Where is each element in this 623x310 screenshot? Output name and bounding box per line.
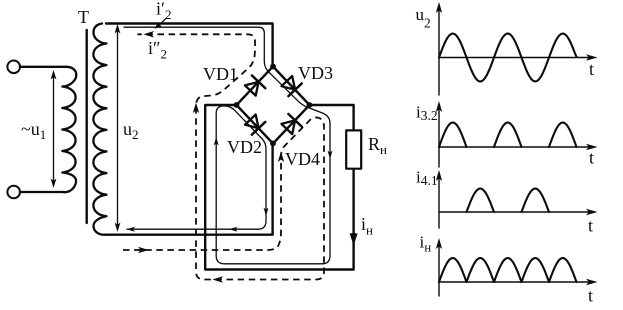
junction node: bridge left vertex [234,102,240,108]
svg-text:VD1: VD1 [203,64,238,84]
diode VD4 [280,114,302,135]
svg-text:VD3: VD3 [298,63,333,83]
wire bridge bottom vertex to secondary bottom [104,144,273,235]
sine curve u2 [439,34,577,82]
junction node: bridge top vertex [270,64,276,70]
diode VD3 [280,75,302,96]
arrow on i''2 up run near VD4 [278,152,284,163]
current path i'2 (thin solid loop through VD3, Rn, VD2) [124,27,330,264]
diode VD2 [244,113,266,134]
arrow on i'2 bottom run (left, to transformer) [127,227,136,232]
transformer core [85,30,87,223]
resistor Rn [346,130,361,168]
junction node: bridge right vertex [307,102,313,108]
arrow on i'2 down run near Rn [328,151,333,160]
arrow on i'2 bottom run (mid) [229,227,238,232]
svg-text:t: t [588,216,593,236]
wire secondary top to bridge top vertex [106,24,273,67]
wire top terminal to primary [20,66,66,68]
svg-text:VD2: VD2 [227,137,262,157]
arrow on i''2 top return run [144,31,155,38]
transformer primary winding L1 [62,67,76,193]
bridge diamond edges (wires) [237,67,310,144]
svg-text:T: T [78,7,89,27]
waveform plot i_n: axes [439,245,590,296]
waveform plot i4.1: axes [439,177,590,228]
svg-text:t: t [589,148,594,168]
diode VD1 [244,75,266,96]
arrow on i'2 top run (leader from label) [158,18,166,26]
current path i''2 (dashed loop through VD4, Rn, VD1) [123,34,324,279]
waveform plot u2: axes [439,9,590,95]
arrow on i''2 up run near left vertex [193,103,199,114]
voltage arrow u2 (double-headed) [117,29,119,227]
half-wave humps i3.2 [439,123,577,148]
current arrow i_n on load wire [350,233,358,246]
voltage arrow u1 (double-headed) [53,75,55,183]
wire bottom terminal to primary [20,191,64,193]
waveform plot i3.2: axes [439,108,590,167]
arrow on i'2 down run below bridge [264,208,269,217]
arrow on i''2 bottom-out run (from transformer) [138,247,149,254]
wire right vertex to Rn top [310,105,354,130]
arrow on i'2 up run near VD2 [214,137,219,146]
transformer secondary winding L2 [93,24,106,235]
terminal bottom-left [7,186,20,199]
wire left vertex down and along bottom to below Rn [205,105,353,270]
half-wave humps i4.1 [467,189,550,213]
junction node: bridge bottom vertex [270,141,276,147]
svg-text:VD4: VD4 [285,149,320,169]
full-wave humps i_n [439,258,577,282]
svg-text:t: t [588,286,593,306]
terminal top-left [7,61,20,74]
arrow on i''2 bottom return run [213,276,224,283]
svg-text:t: t [589,59,594,79]
